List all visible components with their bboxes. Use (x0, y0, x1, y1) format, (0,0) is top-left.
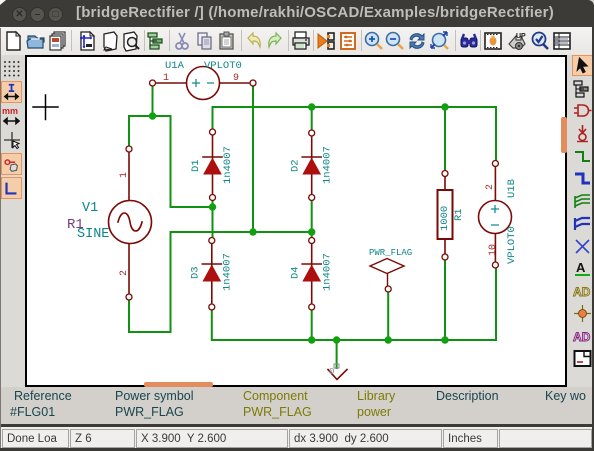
op-amp probe U1B (479, 164, 512, 267)
svg-text:U1A: U1A (165, 60, 185, 72)
icon: units inches (selected) (1, 81, 22, 103)
separator (313, 30, 314, 51)
wire: junction right, down, to D1 bottom junction (153, 116, 213, 207)
svg-text:9: 9 (233, 73, 239, 84)
icon: place bus (572, 168, 593, 189)
pin numbers (red) (119, 73, 499, 276)
svg-text:AD: AD (573, 330, 591, 344)
icon: page settings (76, 30, 98, 52)
icon: footprint assoc (315, 30, 337, 52)
ground (0 node) (328, 370, 347, 380)
junction at R1 top rail (441, 103, 448, 110)
svg-text:V1: V1 (82, 201, 98, 216)
sine source V1 (109, 149, 152, 297)
icon: select arrow (active) (572, 55, 593, 76)
junction at ground stub (333, 336, 340, 343)
icon: find (458, 30, 480, 52)
icon: hierarchy nav (572, 78, 593, 99)
icon: global label (572, 281, 593, 302)
svg-text:AD: AD (573, 285, 591, 299)
svg-text:2: 2 (485, 184, 496, 190)
icon: library update (506, 30, 528, 52)
icon: hierarchical label (572, 326, 593, 347)
wire: rail drop to R1 top (444, 107, 446, 173)
wire: D1 bottom to D3 top (212, 198, 214, 241)
svg-text:A: A (576, 260, 586, 275)
icon: wire to bus entry (572, 191, 593, 212)
crosshair cursor (33, 95, 58, 120)
icon: place component (572, 100, 593, 121)
svg-text:VPLOT0: VPLOT0 (506, 226, 518, 264)
separator (71, 30, 72, 51)
diode D4 (302, 241, 321, 308)
separator (361, 30, 362, 51)
wire: ground stub (336, 340, 338, 368)
status bar (0, 427, 594, 451)
svg-text:PWR_FLAG: PWR_FLAG (369, 248, 412, 258)
wire: PWR_FLAG stub (387, 289, 389, 340)
top toolbar (0, 27, 594, 56)
svg-text:1n4007: 1n4007 (222, 253, 234, 291)
icon: zoom out (384, 30, 406, 52)
diode D2 (302, 133, 321, 198)
window title bar (0, 0, 594, 27)
svg-text:1: 1 (163, 73, 169, 84)
icon: zoom in (363, 30, 385, 52)
svg-text:VPLOT0: VPLOT0 (204, 60, 242, 72)
icon: hierarchical sheet (572, 348, 593, 369)
icon: sheet nav (100, 30, 122, 52)
icon: redo (265, 30, 287, 52)
wire: D2 bottom to D4 top (311, 198, 313, 241)
diode D3 (202, 241, 221, 308)
svg-text:D1: D1 (190, 159, 202, 172)
icon: new schematic (2, 30, 24, 52)
icon: netlist (337, 30, 359, 52)
separator (288, 30, 289, 51)
icon: cursor shape (1, 129, 22, 151)
right toolbar (567, 55, 594, 387)
svg-text:1000: 1000 (439, 206, 451, 231)
icon: save (46, 30, 68, 52)
junction at PWR_FLAG stub (385, 336, 392, 343)
op-amp probe U1A (153, 67, 254, 100)
svg-text:UP: UP (516, 33, 526, 40)
svg-text:D3: D3 (190, 266, 202, 279)
svg-text:1: 1 (119, 172, 130, 178)
wire: top horizontal rail (213, 107, 497, 163)
junction at D1 cathode rail (209, 203, 216, 210)
icon: BOM (551, 30, 573, 52)
icon: print (290, 30, 312, 52)
icon: bus to bus entry (572, 213, 593, 234)
icon: undo (242, 30, 264, 52)
power flag PWR_FLAG (370, 259, 404, 290)
icon: hierarchy navigate (145, 30, 167, 52)
icon: units mm (1, 105, 22, 127)
schematic canvas (25, 55, 567, 387)
junction at D2/D4 mid rail (308, 228, 315, 235)
horizontal scrollbar thumb (144, 382, 213, 387)
svg-text:R1: R1 (453, 208, 465, 221)
icon: copy (194, 30, 216, 52)
icon: place power port (572, 123, 593, 144)
icon: annotate (482, 30, 504, 52)
svg-text:10: 10 (488, 244, 499, 256)
icon: open schematic (25, 30, 47, 52)
icon: junction (572, 303, 593, 324)
diode D1 (203, 132, 222, 198)
wire: junction to V1 top pin (129, 116, 153, 148)
junction at V1 top / U1A pin1 (149, 112, 156, 119)
wire: mid wire left end down-left-up to V1 bottom pin (129, 232, 171, 332)
svg-text:2: 2 (119, 270, 130, 276)
separator (241, 30, 242, 51)
left toolbar (0, 55, 25, 387)
wire: U1A pin1 drop to junction (152, 84, 154, 116)
junction at D4 bottom rail (308, 336, 315, 343)
separator (455, 30, 456, 51)
svg-text:1n4007: 1n4007 (222, 146, 234, 184)
junction at D2 top rail (308, 103, 315, 110)
svg-text:D4: D4 (290, 266, 302, 279)
component info panel (0, 387, 594, 424)
wire: mid horizontal wire to D2/D4 column (171, 231, 312, 233)
icon: zoom fit (429, 30, 451, 52)
icon: hidden pins (selected) (1, 153, 22, 175)
icon: net label (572, 258, 593, 279)
labels (teal) (77, 60, 518, 291)
wire: R1 bottom to bottom rail (444, 257, 446, 340)
separator (480, 30, 481, 51)
wire: U1A pin9 drop to mid wire (252, 84, 254, 232)
separator (169, 30, 170, 51)
icon: ERC check (529, 30, 551, 52)
icon: no connect (572, 236, 593, 257)
icon: HV wire orientation (selected) (1, 177, 22, 199)
svg-text:1n4007: 1n4007 (322, 253, 334, 291)
junction at R1 bottom rail (441, 336, 448, 343)
svg-text:U1B: U1B (506, 179, 518, 198)
icon: cut (171, 30, 193, 52)
icon: redraw (406, 30, 428, 52)
svg-text:mm: mm (2, 106, 18, 116)
svg-text:D2: D2 (290, 159, 302, 172)
icon: place wire (572, 146, 593, 167)
svg-text:1n4007: 1n4007 (322, 146, 334, 184)
pin end circles (126, 80, 498, 310)
wire: rail drop to D2 top (311, 107, 313, 133)
icon: grid toggle (1, 57, 22, 79)
icon: sheet magnifier (120, 30, 142, 52)
separator (144, 30, 145, 51)
junction at U1A pin9 / mid rail (249, 228, 256, 235)
wire: bottom rail (212, 266, 496, 340)
icon: paste (216, 30, 238, 52)
vertical scrollbar thumb (561, 117, 567, 153)
resistor R1 (438, 173, 453, 257)
wire: D4 bottom to bottom rail (311, 307, 313, 340)
svg-text:R1: R1 (67, 217, 84, 233)
